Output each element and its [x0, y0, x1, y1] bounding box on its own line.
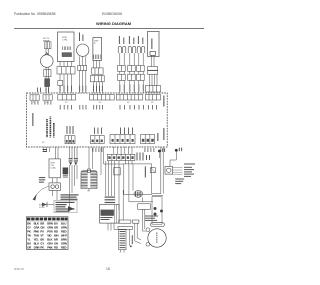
B connector strip: [57, 67, 75, 74]
bottom connector inner marks: [92, 139, 154, 142]
junction dot 2 label: [179, 148, 182, 152]
header rule: [14, 28, 204, 30]
svg-text:WIRING DIAGRAM: WIRING DIAGRAM: [96, 21, 132, 26]
valve solenoid dark: [63, 168, 68, 174]
board connector J6: [145, 95, 160, 101]
junction dot 2: [175, 149, 178, 152]
junction dot below board right: [158, 150, 161, 153]
board connector J5: [116, 95, 143, 101]
svg-text:CORD: CORD: [39, 207, 45, 209]
F inner text: [151, 39, 152, 50]
thermostat lines to labels: [173, 168, 183, 175]
defrost thermostat box: [165, 167, 173, 175]
D connector 1: [92, 68, 104, 74]
fan motor C label: [79, 33, 83, 42]
sub-circuit rectangle: [124, 164, 152, 194]
wire labels above sub rect: [137, 153, 151, 161]
start relay housing: [152, 197, 162, 225]
fan motor C: [77, 44, 89, 56]
ice maker pin hatches: [105, 197, 116, 204]
note box arrow: [68, 206, 74, 211]
note text rows above box: [61, 194, 79, 200]
svg-text:EI28BC56IS8: EI28BC56IS8: [102, 12, 122, 16]
svg-text:M: M: [88, 191, 90, 193]
legend table text: [27, 222, 67, 250]
wire color labels above board: [37, 85, 144, 93]
E2 connectors: [128, 65, 136, 80]
terminal strip body: [119, 230, 126, 250]
K3 rotated label: [157, 133, 158, 141]
solenoid hatch: [63, 175, 68, 178]
strip inner marks: [108, 156, 133, 159]
power cord wire: [36, 186, 50, 196]
ice maker inner divider: [114, 205, 116, 224]
B inner connector dark: [62, 53, 72, 57]
E3 connectors: [137, 65, 145, 80]
E1 terminals: [118, 46, 126, 53]
defrost coil: [134, 191, 143, 198]
power plug arrow: [33, 194, 37, 201]
F wires: [150, 55, 158, 85]
inline connector on wire: [114, 168, 120, 175]
terminal strip boxes top: [119, 220, 139, 223]
board connector J2: [43, 95, 52, 100]
ice maker outlet wires: [108, 190, 123, 231]
thermostat label stack: [184, 164, 195, 177]
D connector 2: [90, 76, 104, 82]
compressor labels: [145, 216, 158, 221]
B small connector: [58, 81, 63, 86]
thermistor pair E1 labels: [119, 36, 124, 44]
ice maker inner dark block: [101, 210, 114, 216]
wire dot2 to thermostat: [170, 152, 176, 167]
board inner connector J7: [65, 136, 75, 144]
svg-text:DUAL: DUAL: [51, 167, 57, 170]
svg-text:ORORNPKPNKRDRED: ORORNPKPNKRDRED: [27, 246, 66, 250]
C wires: [80, 56, 86, 93]
svg-text:18: 18: [106, 267, 110, 271]
pin ticks below board bottom edge: [93, 148, 155, 152]
junction dot label: [162, 148, 165, 152]
legend table frame: [26, 217, 68, 250]
strip bottom wires: [121, 250, 125, 253]
relay box: [150, 168, 155, 173]
E1 wires: [120, 53, 124, 93]
compressor terminal bottom: [146, 242, 150, 246]
board bottom connector group K3: [141, 135, 155, 144]
J7 inner marks: [66, 140, 74, 143]
auger motor windings: [81, 172, 96, 188]
plug A3 dark: [45, 79, 50, 87]
B wires: [60, 62, 71, 94]
thermistor pair E2 labels: [129, 36, 134, 44]
plug hatch marks on bundle: [69, 158, 78, 165]
UI board F box: [148, 31, 159, 56]
main control board outline: [26, 93, 167, 147]
compressor terminal top: [146, 228, 150, 232]
board pin ticks under connectors: [32, 101, 157, 110]
terminal strip rows: [120, 231, 126, 248]
relay terminal dots: [154, 207, 157, 210]
damper D box: [93, 38, 102, 61]
D pin row: [94, 55, 100, 60]
compressor rotated text: [155, 232, 158, 242]
ground label: [132, 235, 133, 244]
svg-text:Publication No. 5995545698: Publication No. 5995545698: [14, 12, 56, 16]
lower connector box: [138, 204, 151, 210]
water valve to receptacle wires: [53, 178, 57, 201]
water valve box: [49, 159, 60, 178]
E2 terminals: [128, 46, 136, 53]
C connector: [78, 66, 87, 71]
diode symbol lower left: [42, 203, 47, 207]
wire dot1 down: [158, 152, 160, 158]
auger motor: [81, 169, 97, 189]
ice maker inner marks: [101, 217, 113, 220]
F bottom connector row: [146, 86, 161, 93]
B pin row: [63, 46, 71, 50]
svg-text:CTRL: CTRL: [62, 39, 68, 41]
terminal strip bar: [118, 226, 133, 229]
damper motor A (round): [41, 53, 54, 68]
wire bundle to lower-left components: [70, 147, 78, 210]
connector A2: [44, 70, 51, 77]
board left edge rotated label: [32, 113, 33, 126]
board bottom connector group K1: [90, 136, 104, 144]
svg-text:NW/15: NW/15: [14, 267, 24, 271]
connector strip below board center: [107, 154, 135, 160]
F connector stack: [148, 67, 158, 75]
left tiny label rows: [39, 177, 45, 183]
note box text: [56, 202, 75, 212]
wires strip to sub rect: [104, 161, 132, 211]
wires board to strip: [114, 147, 132, 154]
E2 wires: [130, 53, 134, 93]
compressor feed wires: [135, 209, 146, 243]
board connector J4: [89, 95, 114, 101]
ice maker wire bundle: [101, 147, 115, 196]
dispenser control B box: [58, 32, 75, 62]
D wires: [94, 60, 103, 93]
wires right of board to compressor circuit: [152, 147, 163, 196]
E3 wires: [139, 53, 143, 93]
J7 rotated labels above: [67, 126, 74, 134]
main board rotated name text: [46, 117, 54, 138]
compressor motor: [148, 229, 166, 247]
receptacle box: [49, 183, 60, 191]
wires A to board: [46, 49, 49, 93]
wires inside sub rect: [129, 164, 153, 202]
K1 labels: [94, 128, 102, 135]
board connector J1: [30, 95, 39, 100]
overload protector: [151, 223, 165, 227]
connector labels J1..J6: [33, 102, 154, 104]
connector A hatched: [45, 42, 52, 49]
K2 labels: [120, 128, 133, 135]
board right edge rotated labels: [163, 96, 164, 107]
board bottom connector group K2: [110, 135, 135, 144]
wire stubs below board left: [44, 147, 59, 159]
E3 terminals: [137, 46, 145, 53]
thermostat sub label: [175, 179, 184, 185]
E1 connectors: [118, 65, 126, 80]
stub tick marks: [43, 149, 47, 152]
board connector J3: [58, 95, 76, 101]
auger motor wires: [89, 147, 93, 169]
note box: [54, 200, 77, 212]
thermistor A label: [43, 38, 50, 42]
ground wire beside strip: [129, 229, 131, 245]
thermistor pair E3 labels: [138, 36, 143, 44]
ice maker box: [100, 205, 120, 224]
sub-circuit rotated text: [145, 167, 146, 178]
